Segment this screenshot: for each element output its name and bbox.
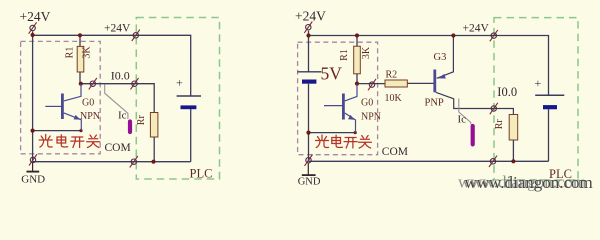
wire: +24V top rail: [309, 36, 549, 96]
battery long plate: [177, 95, 201, 97]
svg-text:Ic: Ic: [458, 114, 467, 126]
svg-text:G0: G0: [361, 97, 373, 108]
svg-text:3K: 3K: [82, 46, 93, 59]
base bar: [342, 94, 345, 120]
wire: R1 node to R2: [357, 83, 385, 85]
emitter arrow (PNP, points to bar): [438, 74, 446, 79]
terminal COM: [130, 156, 138, 167]
svg-text:+24V: +24V: [20, 9, 51, 24]
wire: bottom rail: [33, 161, 191, 163]
terminal GND: [29, 154, 37, 165]
wire: output node to I0.0 and Rr: [81, 84, 154, 113]
label 光电开关: [316, 135, 329, 148]
svg-text:GND: GND: [21, 173, 45, 185]
wire: R1 top lead: [79, 35, 81, 46]
junction dot collector node: [79, 82, 83, 86]
wire: Rr bottom lead: [512, 140, 514, 161]
junction dot G3 emitter rail: [451, 33, 455, 37]
junction dot top-left: [30, 33, 34, 37]
sensor enclosure box (dashed magenta): [21, 41, 101, 153]
svg-text:+: +: [176, 76, 183, 90]
Ic current indicator curve: [459, 99, 471, 125]
terminal sensor output: [89, 78, 97, 89]
svg-text:R1: R1: [65, 47, 76, 59]
svg-text:R1: R1: [339, 49, 350, 61]
svg-text:Rr: Rr: [494, 119, 505, 130]
wire: bottom rail: [309, 160, 549, 162]
wire: emitter bottom wire inside sensor: [33, 130, 82, 132]
battery 5V short thick plate: [302, 79, 316, 83]
svg-text:NPN: NPN: [80, 111, 100, 122]
terminal +24V (PLC supply): [132, 30, 140, 41]
terminal PLC input I0.0: [490, 103, 498, 114]
wire: emitter bottom wire inside sensor: [309, 132, 356, 134]
svg-text:+24V: +24V: [104, 22, 131, 34]
PLC enclosure box (dashed green): [494, 18, 578, 180]
svg-text:COM: COM: [382, 146, 408, 158]
ground symbol: [302, 164, 316, 176]
PLC enclosure box (dashed green): [136, 18, 219, 180]
junction dot emitter rail: [30, 129, 34, 133]
terminal +24V (PLC supply): [490, 30, 498, 41]
resistor R2: [385, 80, 407, 87]
label 光电开关: [39, 135, 52, 148]
terminal PLC input I0.0: [131, 78, 139, 89]
junction dot top-left: [306, 33, 310, 37]
battery short thick plate: [181, 105, 197, 109]
battery long plate: [535, 94, 564, 96]
svg-text:G0: G0: [82, 97, 94, 108]
junction dot emitter drop: [354, 131, 357, 134]
terminal +24V (left sensor supply): [29, 22, 37, 33]
junction dot Rr bottom: [511, 159, 515, 163]
base lead: [324, 105, 342, 107]
svg-text:COM: COM: [105, 142, 131, 154]
emitter arrow (NPN): [348, 115, 355, 120]
svg-text:10K: 10K: [385, 93, 403, 104]
wire: battery bottom lead: [190, 109, 192, 162]
svg-text:G3: G3: [434, 52, 447, 63]
svg-text:R2: R2: [386, 69, 398, 80]
svg-text:5V: 5V: [321, 64, 343, 84]
emitter lead: [64, 113, 82, 131]
svg-text:I0.0: I0.0: [497, 85, 517, 99]
battery 5V long plate: [298, 71, 322, 73]
junction dot emitter drop: [79, 129, 82, 132]
wire: left rail lower (5V battery to GND): [308, 84, 310, 162]
junction dot emitter rail bottom: [306, 131, 310, 135]
ground symbol: [27, 163, 40, 172]
Ic arrow capsule: [128, 122, 132, 133]
wire: Rr bottom lead: [153, 137, 155, 162]
svg-text:Ic: Ic: [118, 110, 127, 122]
svg-text:Rr: Rr: [136, 115, 147, 126]
svg-text:+24V: +24V: [295, 9, 326, 24]
svg-text:PLC: PLC: [190, 167, 213, 181]
svg-text:+24V: +24V: [463, 23, 490, 35]
wire: left rail upper (terminal to 5V battery): [308, 31, 310, 72]
wire: G3 collector to I0.0 and Rr: [436, 92, 514, 114]
junction dot Rr bottom: [151, 160, 155, 164]
junction dot R1 top: [355, 33, 359, 37]
Ic current indicator curve: [105, 85, 128, 120]
emitter arrow (NPN): [74, 115, 81, 120]
wire: R1 bottom lead to collector node: [79, 72, 81, 84]
resistor R1: [354, 46, 361, 74]
Ic arrow capsule: [471, 126, 475, 144]
svg-text:www.diangon.com: www.diangon.com: [465, 173, 593, 192]
svg-text:NPN: NPN: [361, 111, 381, 122]
base bar: [61, 94, 64, 120]
svg-text:+: +: [535, 76, 542, 90]
svg-text:GND: GND: [298, 176, 321, 187]
battery short thick plate: [543, 105, 557, 109]
terminal COM: [489, 156, 497, 167]
resistor Rr: [509, 115, 518, 141]
wire: R1 top lead: [356, 36, 358, 47]
svg-text:PNP: PNP: [425, 98, 444, 109]
sensor enclosure box (dashed magenta): [298, 42, 378, 155]
emitter lead: [345, 113, 356, 133]
terminal GND: [305, 155, 313, 166]
svg-text:3K: 3K: [361, 46, 372, 59]
svg-text:I0.0: I0.0: [111, 69, 130, 83]
wire: R1 bottom lead: [356, 74, 358, 84]
transistor Q G0 NPN: [45, 84, 81, 131]
terminal sensor output: [368, 79, 376, 90]
resistor R1: [77, 46, 84, 72]
collector lead: [64, 84, 81, 101]
resistor Rr: [150, 113, 158, 138]
transistor Q G0 NPN: [324, 84, 357, 133]
wire: G3 emitter to +24V rail: [437, 36, 454, 79]
terminal +24V (sensor supply): [304, 22, 312, 33]
base bar: [433, 70, 436, 93]
wire: left rail vertical (+24V down to GND): [32, 31, 34, 161]
collector lead: [345, 84, 357, 101]
base lead: [45, 105, 61, 107]
wire: battery bottom lead: [548, 109, 550, 161]
transistor Q G3 PNP: [433, 70, 436, 93]
junction dot R1 bottom node: [355, 82, 359, 86]
wire: +24V top rail: [33, 35, 191, 96]
wire: R2 to G3 base: [407, 82, 433, 84]
junction dot R1 top: [78, 33, 82, 37]
